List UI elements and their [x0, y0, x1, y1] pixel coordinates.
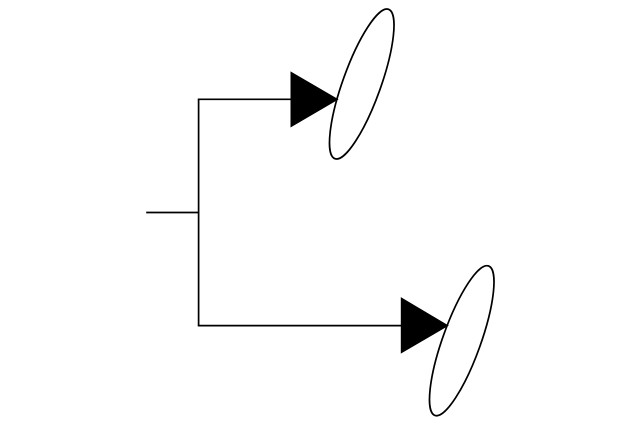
antenna A2 feed triangle: [401, 298, 448, 353]
input stub wire: [146, 212, 198, 214]
antenna A1 dish ellipse: [317, 3, 406, 165]
bottom branch wire: [198, 325, 402, 327]
antenna A1 feed triangle: [291, 72, 338, 126]
antenna A2 dish ellipse: [417, 260, 506, 422]
top branch wire: [198, 98, 292, 100]
vertical splitter wire: [198, 99, 200, 325]
